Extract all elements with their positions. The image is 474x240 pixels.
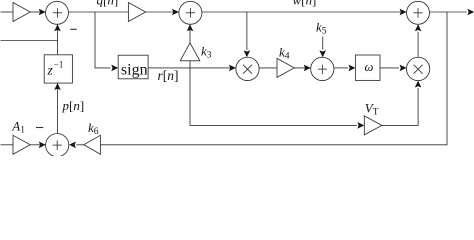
wire S2 to S4 with w[n] label bbox=[202, 11, 407, 13]
svg-text:ω: ω bbox=[365, 60, 374, 74]
wire M1 to k4 bbox=[259, 67, 277, 69]
wire branch down into M1 bbox=[246, 12, 248, 50]
svg-text:−1: −1 bbox=[54, 60, 64, 70]
svg-text:VT: VT bbox=[365, 101, 379, 118]
wire T2 to S2 bbox=[146, 11, 179, 13]
summing junction S3 bbox=[311, 57, 334, 80]
svg-text:w[n]: w[n] bbox=[293, 0, 317, 8]
svg-text:r[n]: r[n] bbox=[158, 68, 179, 83]
amplifier T2 bbox=[128, 3, 145, 22]
wire S3 to omega block bbox=[334, 67, 348, 69]
wire junction up to k3 amplifier bbox=[189, 61, 191, 68]
wire S4 output to right edge bbox=[430, 11, 467, 13]
summing junction S2 bbox=[179, 1, 202, 24]
amplifier k6 (left pointing) bbox=[84, 135, 101, 154]
wire VT to M2 bottom bbox=[382, 88, 418, 125]
svg-text:p[n]: p[n] bbox=[62, 98, 85, 113]
amplifier A1 bbox=[13, 135, 30, 154]
wire A1 to S5 bbox=[30, 144, 46, 146]
summing junction S5 bbox=[46, 134, 69, 157]
svg-text:A1: A1 bbox=[11, 119, 25, 136]
svg-text:q[n]: q[n] bbox=[97, 0, 119, 8]
wire bottom input left edge bbox=[1, 144, 14, 146]
wire p[n] from S5 up into z^-1 bbox=[57, 83, 59, 133]
wire branch q[n] down to sign block bbox=[95, 12, 111, 68]
wire k4 to S3 bbox=[294, 67, 310, 69]
wire k5 input into S3 bbox=[322, 37, 324, 50]
amplifier VT bbox=[364, 116, 382, 135]
wire sign to M1 bbox=[148, 67, 236, 69]
wire M2 up to S4 bbox=[417, 32, 419, 57]
wire main input left edge bbox=[1, 11, 14, 13]
summing junction S4 bbox=[407, 1, 430, 24]
svg-text:k3: k3 bbox=[201, 44, 212, 61]
svg-text:k4: k4 bbox=[279, 45, 290, 62]
svg-text:k6: k6 bbox=[88, 120, 99, 137]
wire arrow into S4 from main line bbox=[400, 9, 407, 16]
wire T1 to S1 bbox=[30, 11, 46, 13]
amplifier k4 bbox=[277, 58, 294, 77]
omega block bbox=[355, 55, 380, 80]
wire left edge input y40 bbox=[1, 40, 58, 42]
wire junction down to VT amplifier bbox=[190, 68, 357, 126]
wire S1 to T2 bbox=[69, 11, 129, 13]
wire k6 to S5 bbox=[76, 144, 84, 146]
minus sign at S5 input bbox=[36, 127, 43, 129]
svg-text:z: z bbox=[47, 63, 54, 78]
wire z-1 output up to S1 bbox=[57, 24, 59, 54]
multiplier M1 bbox=[236, 57, 259, 80]
svg-text:k5: k5 bbox=[316, 20, 327, 37]
sign block bbox=[118, 55, 148, 79]
minus sign at S1 feedback input bbox=[70, 28, 76, 30]
delay block z^-1 bbox=[44, 55, 72, 83]
wire feedback branch down and across bottom bbox=[100, 12, 447, 145]
amplifier k3 bbox=[180, 43, 200, 61]
wire omega to M2 bbox=[380, 67, 399, 69]
svg-text:sign: sign bbox=[121, 62, 148, 79]
amplifier T1 bbox=[13, 3, 30, 22]
summing junction S1 bbox=[46, 1, 69, 24]
multiplier M2 bbox=[406, 57, 429, 80]
wire k3 to S2 bbox=[189, 24, 191, 42]
